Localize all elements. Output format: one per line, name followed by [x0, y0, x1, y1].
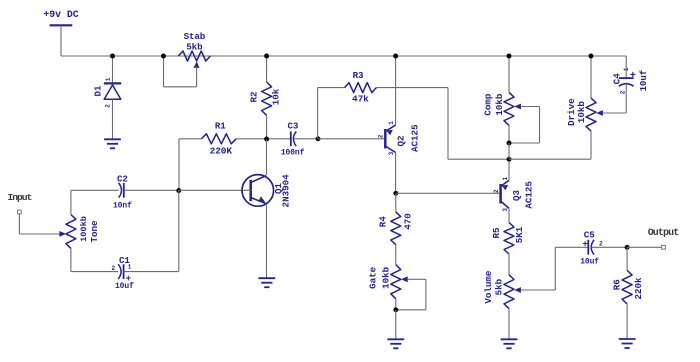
wire D1 to ground: [112, 99, 114, 139]
svg-text:2: 2: [619, 90, 626, 94]
wire Q1 collector: [266, 139, 268, 175]
svg-text:C2: C2: [117, 174, 128, 185]
svg-text:C4: C4: [612, 73, 623, 85]
wire Q2 base: [318, 138, 384, 140]
wire rail to Comp: [508, 56, 510, 92]
wire Gate to ground: [395, 310, 397, 339]
svg-text:470: 470: [402, 213, 413, 230]
junction rail-Stab: [161, 54, 166, 59]
svg-text:100nf: 100nf: [281, 149, 305, 158]
wire Gate wiper return: [396, 279, 426, 310]
capacitor C1: [112, 255, 135, 291]
potentiometer Drive 10kb: [566, 98, 626, 131]
svg-text:+: +: [126, 274, 131, 284]
svg-text:Q2: Q2: [395, 135, 406, 146]
wire Q3 collector: [508, 208, 510, 222]
wire rail to C4: [625, 56, 627, 78]
potentiometer Stab 5kb: [178, 31, 210, 87]
junction Comp-wiper: [507, 141, 512, 146]
svg-text:1: 1: [105, 77, 112, 81]
junction C5-R6-output: [625, 245, 630, 250]
potentiometer Gate 10kb: [367, 265, 426, 299]
wire rail to D1: [112, 56, 114, 84]
svg-text:Gate: Gate: [367, 266, 378, 289]
svg-text:5K1: 5K1: [514, 226, 525, 243]
wire R1 right: [236, 138, 266, 140]
wire Stab wiper return: [164, 56, 197, 87]
wire Q2 collector: [395, 153, 397, 194]
wire C1 to node: [124, 190, 179, 271]
svg-text:5kb: 5kb: [493, 278, 504, 295]
wire R3 to emitter node: [376, 88, 509, 160]
svg-text:5kb: 5kb: [186, 42, 203, 53]
svg-text:2: 2: [104, 104, 111, 108]
svg-text:10k: 10k: [271, 88, 282, 105]
wire Drive bottom: [509, 131, 591, 159]
input terminal: [8, 192, 32, 214]
transistor Q2: [378, 121, 421, 156]
transistor Q1: [242, 174, 292, 208]
svg-text:10uf: 10uf: [639, 70, 649, 92]
wire Gate bottom: [395, 299, 397, 310]
diode D1: [93, 77, 122, 108]
junction rail-R2: [264, 54, 269, 59]
capacitor C4: [612, 67, 649, 94]
potentiometer Comp 10kb: [483, 92, 540, 125]
wire node to R6: [626, 247, 628, 270]
wire Tone top to C2: [71, 190, 119, 214]
svg-text:10nf: 10nf: [113, 201, 132, 210]
resistor R1: [201, 121, 236, 157]
svg-text:Volume: Volume: [483, 270, 494, 304]
resistor R4: [378, 212, 414, 245]
svg-text:47k: 47k: [352, 94, 369, 105]
wire node to R4: [395, 193, 397, 212]
junction Gate-wiper: [393, 307, 398, 312]
wire rail to R2: [266, 56, 268, 82]
wire input: [19, 214, 60, 234]
svg-text:Output: Output: [648, 228, 680, 239]
junction rail-Comp: [507, 54, 512, 59]
output terminal: [648, 228, 680, 249]
power symbol +9v DC: [43, 9, 78, 25]
svg-text:220k: 220k: [633, 277, 644, 300]
wire Q3 base: [396, 192, 500, 194]
wire node up to R3: [318, 88, 345, 139]
svg-text:10kb: 10kb: [381, 266, 392, 289]
svg-text:10uf: 10uf: [580, 258, 599, 267]
svg-text:R3: R3: [353, 70, 364, 81]
junction rail-Q2: [393, 54, 398, 59]
svg-text:1: 1: [388, 121, 395, 125]
wire +9V rail: [61, 55, 626, 57]
svg-text:R1: R1: [215, 121, 226, 132]
svg-text:+: +: [630, 71, 636, 82]
wire R4 to Gate: [395, 245, 397, 265]
wire Comp bottom: [508, 125, 510, 143]
svg-text:R2: R2: [249, 91, 260, 102]
junction R1-R2-C3-Q1: [264, 137, 269, 142]
svg-text:2: 2: [112, 265, 116, 272]
wire C4 to Drive wiper: [625, 84, 627, 113]
wire R1 left: [179, 139, 201, 191]
wire Volume wiper to C5: [555, 247, 588, 290]
wire Volume to ground: [508, 309, 510, 339]
resistor R2: [249, 82, 282, 115]
resistor R5: [491, 223, 525, 254]
svg-text:Q3: Q3: [511, 190, 522, 202]
svg-text:100kb: 100kb: [79, 216, 89, 242]
svg-text:10kb: 10kb: [494, 93, 505, 116]
svg-text:2: 2: [599, 241, 603, 248]
svg-text:1: 1: [502, 176, 509, 180]
svg-text:R6: R6: [611, 279, 622, 290]
svg-text:AC125: AC125: [409, 124, 420, 152]
svg-text:1: 1: [128, 263, 132, 270]
junction C3-R3-Q2: [316, 136, 321, 141]
junction Q2-R4-Q3: [393, 191, 398, 196]
junction rail-D1: [110, 54, 115, 59]
svg-text:D1: D1: [93, 85, 104, 97]
ground Q1: [258, 278, 275, 287]
svg-text:2: 2: [378, 134, 385, 138]
wire C2 to node: [124, 189, 179, 191]
svg-text:220K: 220K: [210, 145, 233, 156]
junction emitter node: [507, 157, 512, 162]
junction C2-R1-Q1: [176, 188, 181, 193]
wire Tone bottom to C1: [71, 248, 118, 271]
resistor R3: [345, 70, 377, 105]
resistor R6: [611, 270, 644, 304]
wire R6 to ground: [626, 304, 628, 339]
wire Comp wiper return: [509, 107, 540, 144]
wire Q2 emitter to rail: [395, 56, 397, 125]
wire Comp node down: [508, 143, 510, 159]
svg-text:C3: C3: [287, 121, 298, 132]
svg-text:+: +: [582, 239, 587, 249]
wire +9V symbol to rail: [60, 25, 62, 56]
potentiometer Volume 5kb: [483, 270, 555, 309]
potentiometer Tone 100kb: [59, 215, 99, 249]
junction rail-Drive: [589, 54, 594, 59]
wire Q3 emitter: [508, 159, 510, 180]
wire to output pad: [627, 246, 661, 248]
svg-text:10uf: 10uf: [115, 282, 134, 291]
svg-text:2N3904: 2N3904: [281, 174, 292, 208]
wire C3 to Q2 base node: [294, 138, 318, 140]
ground Gate: [387, 339, 404, 348]
wire rail to Drive: [590, 56, 592, 98]
svg-text:Stab: Stab: [184, 31, 206, 42]
ground D1: [104, 139, 121, 148]
wire R5 to Volume: [508, 254, 510, 275]
svg-text:10kb: 10kb: [576, 101, 587, 124]
svg-text:+9v DC: +9v DC: [43, 9, 78, 20]
svg-text:Tone: Tone: [89, 220, 100, 243]
wire Q1 base: [179, 189, 242, 191]
svg-text:3: 3: [502, 208, 509, 212]
svg-text:3: 3: [388, 151, 395, 155]
wire C5 to output node: [592, 246, 628, 248]
wire Q1 emitter to ground: [266, 204, 268, 278]
transistor Q3: [493, 176, 535, 211]
svg-text:Input: Input: [8, 192, 32, 203]
ground R6: [619, 339, 636, 348]
svg-text:1: 1: [623, 67, 630, 71]
capacitor C5: [580, 229, 603, 266]
ground Volume: [501, 339, 518, 348]
svg-text:R5: R5: [491, 227, 502, 239]
capacitor C3: [281, 121, 305, 158]
wire R2 to node: [266, 115, 268, 139]
capacitor C2: [113, 174, 132, 211]
svg-text:AC125: AC125: [523, 181, 534, 209]
wire node to C3: [267, 138, 291, 140]
svg-text:R4: R4: [378, 216, 389, 228]
svg-text:Comp: Comp: [483, 93, 494, 116]
svg-text:2: 2: [493, 189, 500, 193]
